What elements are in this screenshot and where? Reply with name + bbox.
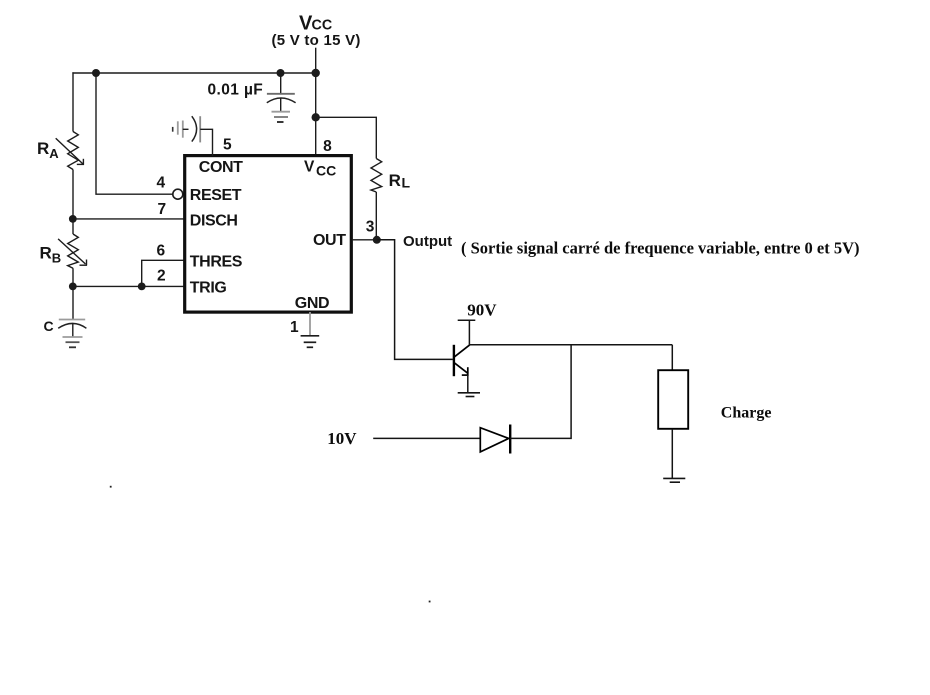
resistor Charge (load box): [658, 370, 688, 429]
wire OUT node to transistor base: [377, 240, 453, 360]
svg-text:A: A: [49, 146, 59, 161]
wire OUT pin 3: [352, 239, 376, 241]
diode D1: [480, 425, 510, 454]
svg-text:(5 V to 15 V): (5 V to 15 V): [272, 32, 361, 49]
svg-text:90V: 90V: [467, 300, 497, 319]
label RA: [37, 139, 59, 161]
svg-text:CONT: CONT: [199, 159, 243, 176]
wire VCC supply drop to pin 8: [315, 48, 317, 155]
svg-text:THRES: THRES: [190, 254, 243, 271]
node discharge junction: [69, 215, 77, 223]
label RB: [40, 244, 62, 266]
svg-text:0.01 µF: 0.01 µF: [208, 82, 264, 99]
arrow RB variable: [58, 239, 87, 266]
svg-text:GND: GND: [295, 295, 329, 312]
svg-text:8: 8: [323, 138, 332, 155]
node OUT junction: [373, 236, 381, 244]
wire pin 5: [200, 129, 212, 156]
node trigger junction: [69, 283, 77, 291]
wire pin 1 (GND stub): [309, 312, 311, 336]
wire emitter to ground: [467, 375, 469, 393]
svg-text:1: 1: [290, 319, 299, 336]
node rail / VCC drop junction: [312, 69, 320, 77]
IC U1 555 body: [185, 156, 352, 313]
wire collector to 90V supply: [468, 320, 470, 345]
svg-text:R: R: [389, 171, 401, 190]
wire RL to OUT node: [375, 192, 377, 240]
svg-text:( Sortie signal carré de frequ: ( Sortie signal carré de frequence varia…: [461, 239, 860, 258]
supply bar 90V: [458, 319, 476, 321]
svg-text:OUT: OUT: [313, 232, 346, 249]
label VCC (pin 8 inside): [304, 159, 336, 179]
node rail / bypass cap junction: [277, 69, 285, 77]
resistor RB: [68, 234, 79, 268]
svg-text:R: R: [37, 139, 49, 158]
svg-text:6: 6: [157, 243, 166, 260]
wire pin8 node to RL: [316, 117, 377, 158]
node rail / reset branch junction: [92, 69, 100, 77]
pin 4 inversion circle (RESET): [173, 189, 183, 199]
wire left rail mid segment: [72, 170, 74, 235]
capacitor C: [58, 319, 86, 338]
svg-text:L: L: [402, 175, 411, 191]
resistor RL: [371, 159, 382, 193]
wire TRIG (pin 2): [73, 285, 185, 287]
wire collector rail to load: [469, 344, 672, 346]
svg-text:C: C: [44, 318, 54, 334]
capacitor control (pin 5, drawn sideways): [173, 116, 201, 142]
svg-text:TRIG: TRIG: [190, 280, 227, 297]
svg-text:2: 2: [157, 268, 166, 285]
wire diode cathode to collector rail: [510, 345, 571, 439]
svg-text:RESET: RESET: [190, 187, 242, 204]
ground (emitter): [458, 393, 480, 397]
wire top VCC rail: [72, 72, 315, 74]
svg-text:B: B: [52, 251, 61, 266]
wire 10V to diode anode: [373, 437, 480, 439]
svg-text:10V: 10V: [327, 429, 357, 448]
transistor Q1: [454, 345, 470, 376]
node thres branch junction: [138, 283, 146, 291]
svg-text:DISCH: DISCH: [190, 213, 238, 230]
svg-text:Charge: Charge: [721, 405, 772, 422]
svg-text:Output: Output: [403, 233, 452, 250]
wire left rail upper segment: [72, 72, 74, 131]
wire collector rail to charge: [671, 345, 673, 370]
node pin8 / RL branch junction: [312, 113, 320, 121]
svg-text:V: V: [304, 159, 315, 176]
arrow RA variable: [56, 138, 84, 165]
svg-text:4: 4: [157, 175, 166, 192]
wire THRES branch (pin 6): [142, 260, 185, 286]
resistor RA: [68, 132, 79, 170]
svg-text:7: 7: [158, 201, 167, 218]
ground (pin 1): [301, 336, 320, 348]
capacitor 0.01uF (bypass): [267, 73, 296, 112]
label RL: [389, 171, 411, 191]
label VCC (supply): [299, 13, 332, 35]
ground (charge): [663, 478, 685, 482]
ground (C): [63, 337, 83, 347]
svg-text:3: 3: [366, 219, 375, 236]
svg-text:R: R: [40, 244, 52, 263]
svg-text:CC: CC: [316, 163, 336, 179]
wire DISCH (pin 7): [73, 218, 185, 220]
wire charge to ground: [671, 429, 673, 479]
wire left rail lower segment: [72, 268, 74, 318]
svg-text:5: 5: [223, 137, 232, 154]
ground (bypass cap): [272, 112, 291, 122]
wire reset branch (rail to pin 4): [96, 73, 173, 194]
